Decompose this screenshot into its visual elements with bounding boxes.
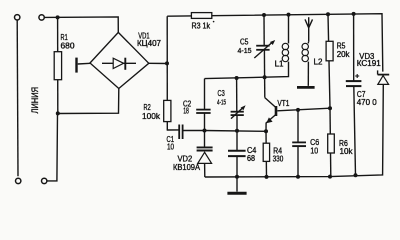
wire mid rail y131 — [205, 130, 267, 133]
capacitor C7 — [346, 14, 377, 175]
junction bridge plus node — [165, 61, 169, 65]
junction base/R5/R6 — [328, 106, 332, 110]
terminal top-left — [15, 15, 20, 20]
svg-text:20k: 20k — [337, 50, 351, 59]
svg-text:L2: L2 — [314, 58, 323, 67]
resistor R2 — [142, 100, 171, 121]
variable capacitor C5 — [238, 15, 276, 77]
inductor L1 — [275, 15, 289, 69]
wire bottom AC to bridge — [58, 89, 119, 114]
svg-text:4-15: 4-15 — [217, 97, 226, 106]
svg-text:10: 10 — [167, 143, 174, 152]
svg-text:68: 68 — [247, 154, 255, 163]
junction node A (C1/C2/VD2) — [203, 129, 207, 133]
svg-text:4-15: 4-15 — [238, 46, 252, 55]
svg-text:330: 330 — [273, 155, 284, 164]
antenna — [305, 17, 313, 42]
wire top rail left — [44, 17, 118, 33]
svg-text:18: 18 — [183, 107, 189, 116]
junction R5 top — [326, 12, 330, 16]
wire bridge right stub — [149, 62, 167, 64]
junction R6 bottom — [328, 175, 332, 179]
capacitor C2 — [183, 79, 211, 131]
svg-text:10k: 10k — [340, 147, 354, 156]
capacitor C6 — [292, 110, 319, 177]
resistor R4 — [263, 131, 284, 177]
junction C6 bottom — [296, 175, 300, 179]
wire R2 to C1 — [167, 129, 179, 131]
wire top rail right — [167, 14, 383, 72]
junction C5 top — [262, 13, 266, 17]
junction R4 bottom — [265, 175, 269, 179]
terminal bottom-left — [16, 178, 21, 183]
ground under L2 — [297, 86, 315, 89]
inductor L2 — [302, 42, 323, 86]
wire bottom terminal to R1 column — [47, 114, 58, 181]
junction C4 bottom — [235, 175, 239, 179]
svg-text:R3 1k: R3 1k — [192, 21, 211, 30]
svg-text:R2: R2 — [144, 103, 152, 112]
junction C5/collector — [263, 75, 267, 79]
wire tank rail y77 — [205, 62, 289, 79]
junction L1 top — [287, 13, 291, 17]
junction C7 bottom — [354, 173, 358, 177]
junction C7 top — [352, 12, 356, 16]
wire bottom rail — [205, 84, 383, 177]
capacitor C1 — [167, 125, 183, 152]
svg-text:КС191: КС191 — [357, 59, 382, 68]
svg-text:470 0: 470 0 — [357, 98, 378, 107]
terminal bottom-right — [42, 178, 47, 183]
wire left line conductor — [16, 20, 19, 176]
resistor R6 — [328, 108, 354, 176]
resistor R1 — [54, 17, 75, 113]
terminal top-right — [39, 15, 44, 20]
resistor R3 — [191, 13, 214, 31]
svg-text:10: 10 — [310, 146, 318, 155]
junction base/C6 — [296, 108, 300, 112]
wire base line — [277, 108, 330, 111]
varicap VD2 — [173, 131, 213, 178]
wire C1 to node A — [183, 130, 205, 132]
wire R2 column — [166, 16, 168, 130]
svg-text:VD2: VD2 — [178, 154, 193, 163]
zener VD3 — [357, 52, 389, 84]
svg-text:КЦ407: КЦ407 — [137, 39, 162, 48]
bridge rectifier VD1 — [90, 31, 162, 88]
svg-text:L1: L1 — [275, 60, 284, 69]
capacitor C4 — [228, 131, 257, 177]
svg-text:100k: 100k — [142, 112, 161, 121]
junction R1 bottom — [56, 111, 60, 115]
svg-text:ЛИНИЯ: ЛИНИЯ — [30, 87, 40, 114]
junction R1 top — [56, 15, 60, 19]
resistor R5 — [326, 14, 350, 108]
svg-text:680: 680 — [61, 42, 76, 51]
capacitor plate stub at bridge left — [77, 58, 91, 73]
svg-text:КВ109А: КВ109А — [173, 163, 201, 172]
junction node emitter/R4 — [264, 129, 268, 133]
variable capacitor C3 — [217, 78, 246, 131]
ground under C4 — [227, 177, 246, 193]
transistor VT1 — [265, 77, 290, 131]
junction node B (C3/C4) — [235, 129, 239, 133]
svg-text:VT1: VT1 — [277, 99, 289, 108]
junction C3 top — [235, 76, 239, 80]
